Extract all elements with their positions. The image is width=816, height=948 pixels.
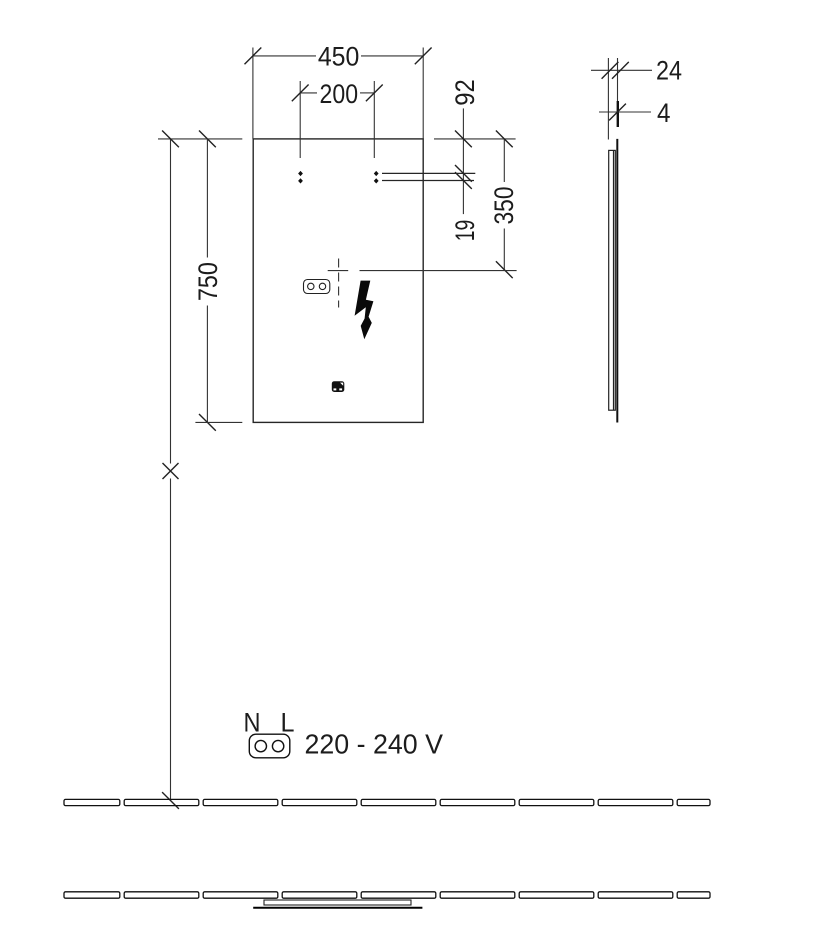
dimension 200 tick right (366, 85, 383, 102)
dimension 350 line (503, 139, 505, 270)
svg-text:N: N (244, 707, 261, 737)
center line vertical dashed (338, 259, 340, 308)
overall height tick top (162, 131, 179, 148)
side view back panel (616, 139, 618, 423)
overall height line lower (170, 479, 172, 801)
svg-text:750: 750 (193, 262, 223, 301)
dimension 750 line (206, 139, 208, 423)
dimension 19 tick lower (455, 172, 472, 189)
dimension 92 tick top (455, 131, 472, 148)
dimension 350 tick top (496, 131, 513, 148)
dimension 92 line (462, 108, 464, 214)
hanger line upper (382, 172, 475, 174)
dimension 4 line (599, 111, 651, 113)
dimension 450 extension lines (253, 48, 423, 139)
variable height X mark (163, 463, 179, 479)
dimension 24 tick left (602, 62, 619, 79)
svg-text:24: 24 (656, 56, 682, 86)
wall line plan view (64, 892, 710, 898)
side view extension line back (617, 58, 619, 101)
socket symbol on mirror (304, 280, 330, 294)
power socket symbol (249, 734, 289, 758)
dimension 200 line (300, 92, 374, 94)
side view extension line front (607, 58, 609, 140)
dimension 450 line (253, 55, 423, 57)
svg-text:19: 19 (450, 220, 480, 242)
bottom left extension line (195, 421, 242, 423)
dimension 750 tick bottom (199, 414, 216, 431)
top right extension line (434, 138, 516, 140)
overall height tick bottom (162, 792, 179, 809)
dimension 24 line (591, 69, 652, 71)
overall height line upper (170, 139, 172, 464)
dimension 24 tick right (612, 62, 629, 79)
svg-text:450: 450 (318, 42, 360, 72)
mirror front view outline (253, 139, 423, 423)
connection leader line (360, 270, 517, 272)
dimension 350 tick bottom (496, 261, 513, 278)
dimension 200 extension lines (300, 81, 374, 158)
dimension 450 tick right (415, 48, 432, 65)
fixing point right (374, 171, 379, 184)
plan view mirror front face (253, 907, 422, 909)
plan view mirror body (264, 900, 411, 905)
svg-text:L: L (281, 707, 295, 737)
svg-text:92: 92 (450, 79, 480, 106)
side view thick edge segment (617, 101, 619, 127)
sensor switch icon (332, 381, 345, 392)
dimension 450 tick left (245, 48, 262, 65)
svg-text:4: 4 (657, 98, 671, 128)
side view glass panel (609, 150, 616, 410)
center line horizontal dash (328, 270, 349, 272)
fixing point left (298, 171, 303, 184)
dimension 4 tick (609, 104, 626, 121)
top left extension line (158, 138, 242, 140)
floor line front view (64, 799, 710, 805)
dimension 19 tick upper (455, 165, 472, 182)
hanger line lower (382, 180, 474, 182)
svg-text:200: 200 (320, 79, 359, 109)
svg-text:350: 350 (489, 186, 519, 224)
svg-text:220 - 240 V: 220 - 240 V (305, 729, 444, 760)
lightning bolt symbol (355, 281, 374, 340)
dimension 200 tick left (292, 85, 309, 102)
dimension 750 tick top (199, 131, 216, 148)
